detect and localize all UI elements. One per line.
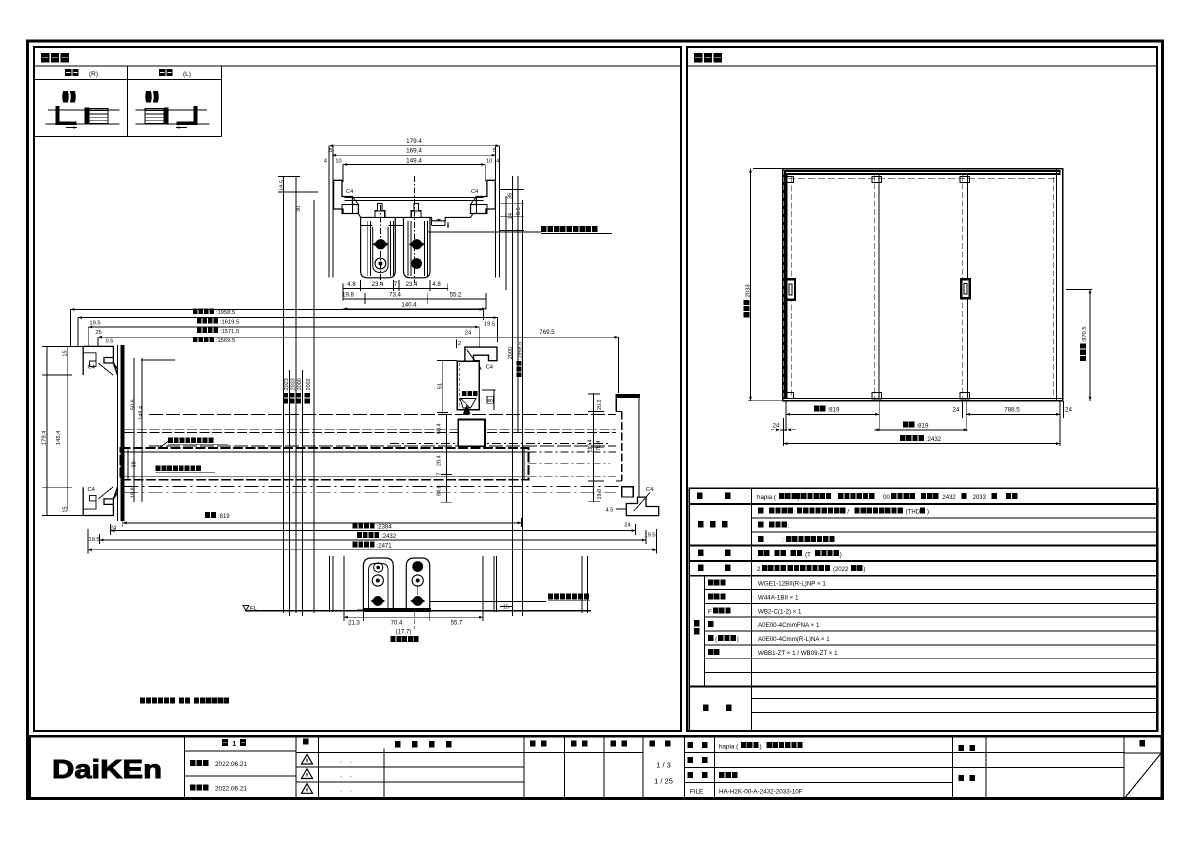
svg-text:A0E00-4Cmm(R-L)NA × 1: A0E00-4Cmm(R-L)NA × 1 (758, 636, 830, 643)
middle jamb labels (462, 391, 467, 396)
svg-text:4.5: 4.5 (606, 508, 614, 514)
svg-text:7: 7 (437, 473, 443, 476)
svg-text::970.5: :970.5 (1082, 326, 1088, 342)
svg-text:149.4: 149.4 (406, 157, 422, 164)
svg-text:2033: 2033 (973, 495, 987, 501)
svg-text:.: . (350, 772, 352, 779)
svg-text:788.5: 788.5 (1004, 406, 1020, 413)
svg-text:19.5: 19.5 (279, 180, 285, 191)
svg-text:15: 15 (62, 506, 68, 512)
svg-text:84.6: 84.6 (437, 486, 443, 497)
svg-text::819: :819 (916, 422, 929, 429)
svg-text:55.7: 55.7 (451, 621, 463, 627)
right jamb bottom blocks (622, 487, 634, 497)
section panel border (left) (34, 47, 681, 731)
platto rail callout (430, 601, 546, 603)
floor line and FL mark (245, 610, 591, 612)
svg-text:38: 38 (131, 461, 137, 467)
elevation inner verticals (873, 175, 875, 398)
front bottom dims row1 (814, 405, 819, 411)
track support rail (345, 197, 484, 199)
dim 819 door width (205, 512, 210, 518)
upper-right frame casing C4 (471, 180, 496, 213)
hanger roller unit right (404, 204, 431, 278)
middle jamb pocket body (457, 361, 479, 409)
svg-text:179.4: 179.4 (406, 138, 422, 145)
svg-text:24: 24 (773, 422, 780, 429)
floor detail wall lines (329, 556, 331, 612)
svg-text:179.4: 179.4 (42, 430, 48, 445)
svg-text:19.8: 19.8 (130, 487, 136, 498)
footnote (140, 698, 145, 704)
meisho label and value (688, 742, 693, 748)
svg-text:FILE: FILE (690, 789, 703, 796)
svg-text:hapia (: hapia ( (719, 744, 739, 751)
svg-text:DaiKEn: DaiKEn (52, 754, 162, 784)
svg-text:W44A-1BII × 1: W44A-1BII × 1 (758, 594, 799, 601)
svg-text:C4: C4 (88, 487, 96, 493)
svg-text:C4: C4 (486, 364, 494, 370)
svg-text:A0E00-4CmmFNA × 1: A0E00-4CmmFNA × 1 (758, 622, 820, 629)
svg-text:24: 24 (624, 523, 631, 529)
svg-text:25: 25 (95, 330, 101, 336)
svg-text:hapia (: hapia ( (757, 494, 777, 501)
callout V-cap label (156, 466, 161, 472)
hanger center lines (379, 205, 381, 283)
svg-text:169.4: 169.4 (406, 148, 422, 155)
callout tsurisha rail (428, 231, 541, 233)
svg-text:70.4: 70.4 (391, 621, 403, 627)
spec row totte (698, 550, 704, 557)
handle left (786, 279, 795, 299)
kenmei and zuin labels (959, 745, 965, 751)
svg-text::2384: :2384 (377, 524, 393, 530)
wall lines right (495, 146, 497, 278)
front-view panel border (right) (687, 47, 1157, 731)
svg-text:2022.06.21: 2022.06.21 (215, 761, 247, 768)
upper-left frame casing C4 (334, 180, 359, 213)
zumei label and value (688, 772, 693, 778)
svg-text:19.8: 19.8 (597, 489, 603, 500)
spec row rail (698, 565, 704, 572)
svg-text:35: 35 (508, 193, 514, 199)
svg-text:C4: C4 (88, 364, 96, 370)
svg-text::2023: :2023 (284, 378, 290, 392)
svg-text:15: 15 (503, 605, 509, 611)
svg-text:19.8: 19.8 (342, 292, 354, 299)
svg-text:24: 24 (465, 331, 472, 337)
floor guide unit left (363, 558, 393, 610)
approval headers (530, 740, 536, 746)
svg-text:140.4: 140.4 (401, 302, 417, 309)
left jamb dim verticals (46, 346, 48, 515)
svg-text:113.4: 113.4 (588, 440, 594, 453)
middle pocket (458, 420, 485, 447)
svg-text::819: :819 (827, 406, 840, 413)
revision triangles (302, 755, 313, 765)
spec hinban label (694, 620, 700, 627)
door travel dashed lines (390, 443, 610, 445)
svg-text:24: 24 (953, 406, 960, 413)
svg-text:68.4: 68.4 (437, 424, 443, 435)
svg-text::819: :819 (218, 514, 230, 520)
svg-text:78.4: 78.4 (596, 441, 602, 452)
front door panel (120, 448, 528, 480)
svg-text:2000: 2000 (508, 347, 514, 359)
floor rail strip (363, 608, 431, 612)
plan bottom dim stack (353, 523, 358, 529)
page cell (1124, 752, 1161, 754)
svg-text:(L): (L) (183, 71, 191, 78)
middle dim column 68.4 etc (445, 415, 447, 503)
svg-text:C4: C4 (646, 487, 654, 493)
svg-text:23.4: 23.4 (406, 281, 418, 288)
svg-text:F: F (708, 608, 712, 615)
svg-text:80: 80 (488, 398, 494, 404)
elevation bottom line (783, 398, 1063, 400)
floor guide unit right (406, 558, 429, 610)
svg-text:2432: 2432 (942, 495, 956, 501)
spec bikou label (703, 705, 709, 712)
svg-text::1958.5: :1958.5 (518, 342, 524, 360)
title block outer (30, 736, 1162, 798)
svg-text:): ) (927, 510, 929, 516)
title block column lines (184, 736, 186, 798)
svg-text:28.4: 28.4 (437, 456, 443, 467)
left jamb boards (116, 345, 118, 521)
svg-text:19.5: 19.5 (88, 537, 99, 543)
rail step arrow (436, 219, 441, 221)
front bottom dims row3 (900, 435, 905, 441)
svg-text:C4: C4 (346, 189, 354, 195)
svg-text:(2022: (2022 (833, 567, 849, 573)
cluster A rotated height dims (283, 378, 290, 403)
hanger roller unit left (361, 204, 396, 278)
top detail right dim cluster (505, 196, 507, 290)
elevation corner blocks (787, 176, 794, 182)
svg-text:51: 51 (438, 383, 444, 389)
svg-text:0.5: 0.5 (516, 207, 522, 215)
svg-text:15: 15 (62, 350, 68, 356)
svg-text:.: . (340, 787, 342, 794)
right jamb profile (616, 394, 640, 398)
svg-text:.: . (350, 787, 352, 794)
callout A-side label (158, 442, 168, 450)
plan top dim lines (71, 308, 484, 310)
svg-text:1: 1 (232, 741, 236, 748)
kaitei date row (190, 784, 196, 790)
svg-text:30: 30 (296, 206, 302, 212)
svg-text:24: 24 (1065, 406, 1072, 413)
svg-text:5: 5 (329, 148, 332, 154)
plan top dim text stack (193, 309, 198, 314)
svg-text:C4: C4 (471, 189, 479, 195)
mini section diagram right-slide (46, 92, 120, 129)
svg-text::2000: :2000 (297, 378, 303, 392)
svg-text:00: 00 (883, 495, 890, 501)
svg-text::2432: :2432 (381, 534, 397, 540)
svg-text:(: ( (715, 637, 717, 643)
svg-text:WGE1-12BII(R-L)NP × 1: WGE1-12BII(R-L)NP × 1 (758, 581, 826, 588)
left jamb bottom casing C4 (83, 487, 117, 515)
svg-text::1571.5: :1571.5 (220, 329, 239, 335)
hinban label (688, 757, 693, 763)
svg-text:WBB1-ZT × 1 / WB09-ZT × 1: WBB1-ZT × 1 / WB09-ZT × 1 (758, 650, 838, 657)
spec hinban rows (708, 580, 713, 586)
middle jamb dim 51 (442, 361, 444, 415)
middle jamb right part (493, 390, 495, 410)
svg-text::1569.5: :1569.5 (216, 338, 235, 344)
elevation hidden dashed verticals (791, 177, 793, 397)
svg-text:1 / 25: 1 / 25 (654, 777, 673, 786)
svg-text::1958.5: :1958.5 (216, 310, 235, 316)
mini section diagram left-slide (136, 92, 210, 129)
svg-text:HA-H2K-00-A-2432-2033-10F: HA-H2K-00-A-2432-2033-10F (719, 789, 803, 796)
spec table grid (689, 488, 1157, 730)
cell label hidari-biki (L) (159, 69, 165, 76)
svg-text:10: 10 (486, 158, 492, 164)
cluster B rotated dims (508, 347, 514, 359)
front view header underline (687, 65, 1157, 67)
cell label migi-biki (R) (65, 69, 71, 76)
svg-text:19.5: 19.5 (89, 321, 100, 327)
svg-text:(THD: (THD (906, 510, 921, 516)
fold line cluster A (282, 176, 284, 613)
svg-text:73.4: 73.4 (389, 292, 401, 299)
svg-text:20.2: 20.2 (597, 400, 603, 411)
svg-text:0.5: 0.5 (106, 339, 114, 345)
svg-text:WB2-C(1-2) × 1: WB2-C(1-2) × 1 (758, 608, 802, 615)
label danmenzu (section view) (41, 53, 49, 63)
handle right (961, 279, 970, 298)
svg-text:): ) (840, 552, 842, 558)
left jamb inner dims (133, 358, 135, 502)
wall lines left (328, 146, 330, 278)
svg-text::2002: :2002 (306, 378, 312, 392)
svg-text:4.8: 4.8 (347, 281, 356, 288)
svg-text:): ) (737, 637, 739, 643)
svg-text:10: 10 (335, 158, 341, 164)
svg-text:2: 2 (458, 341, 461, 347)
svg-text:4: 4 (496, 158, 499, 164)
name rows grid (685, 752, 1125, 754)
right jamb bottom horn C4 (626, 497, 658, 515)
svg-text:19.5: 19.5 (484, 321, 495, 327)
elevation top hidden dash (788, 177, 1056, 179)
svg-text:(R): (R) (89, 71, 98, 78)
left jamb top casing C4 (83, 346, 117, 375)
left stile dark (782, 175, 787, 398)
svg-text:50.6: 50.6 (130, 399, 136, 410)
spec row shiage (698, 521, 704, 528)
svg-text:145.4: 145.4 (56, 430, 62, 445)
front dim left height 2033 (750, 169, 752, 401)
han column header (303, 738, 309, 744)
svg-text:4.8: 4.8 (432, 281, 441, 288)
svg-text:4: 4 (324, 158, 327, 164)
svg-text::2033: :2033 (746, 284, 752, 299)
svg-text:23.4: 23.4 (372, 281, 384, 288)
svg-text:1 / 3: 1 / 3 (656, 761, 671, 770)
upper door band (149, 414, 616, 416)
svg-text::2033: :2033 (291, 378, 297, 392)
direction table grid (34, 79, 221, 81)
svg-text:.: . (350, 758, 352, 765)
elevation top rail dark band (784, 170, 1061, 175)
svg-text:14: 14 (508, 213, 514, 219)
svg-text::2432: :2432 (926, 436, 942, 443)
seitei date row (190, 760, 196, 766)
header underline (34, 65, 681, 67)
middle jamb profile (465, 347, 497, 376)
svg-text:2022.06.21: 2022.06.21 (215, 786, 247, 793)
front dim right handle height 970.5 (1089, 289, 1091, 400)
svg-text:148.4: 148.4 (139, 406, 145, 420)
label shoumenzu (front view) (694, 53, 702, 63)
revision header dai-1-han (222, 739, 228, 746)
svg-text:): ) (863, 567, 865, 573)
svg-text::2471: :2471 (377, 543, 393, 549)
right jamb dim verticals (592, 393, 594, 502)
spec row yoshiki (697, 492, 703, 499)
kaitei rireki header (395, 741, 401, 748)
svg-text:FL: FL (250, 606, 258, 612)
svg-text:.: . (340, 758, 342, 765)
svg-text::1619.5: :1619.5 (220, 320, 239, 326)
hanging rail profile (358, 214, 473, 221)
svg-text:): ) (760, 744, 762, 751)
svg-text:(T: (T (805, 552, 811, 558)
svg-text:55.2: 55.2 (450, 292, 462, 299)
elevation outer frame (783, 169, 1063, 401)
svg-text:769.5: 769.5 (539, 329, 555, 336)
svg-text:21.3: 21.3 (348, 621, 360, 627)
svg-text:(17.7): (17.7) (396, 630, 412, 636)
svg-text:.: . (340, 772, 342, 779)
